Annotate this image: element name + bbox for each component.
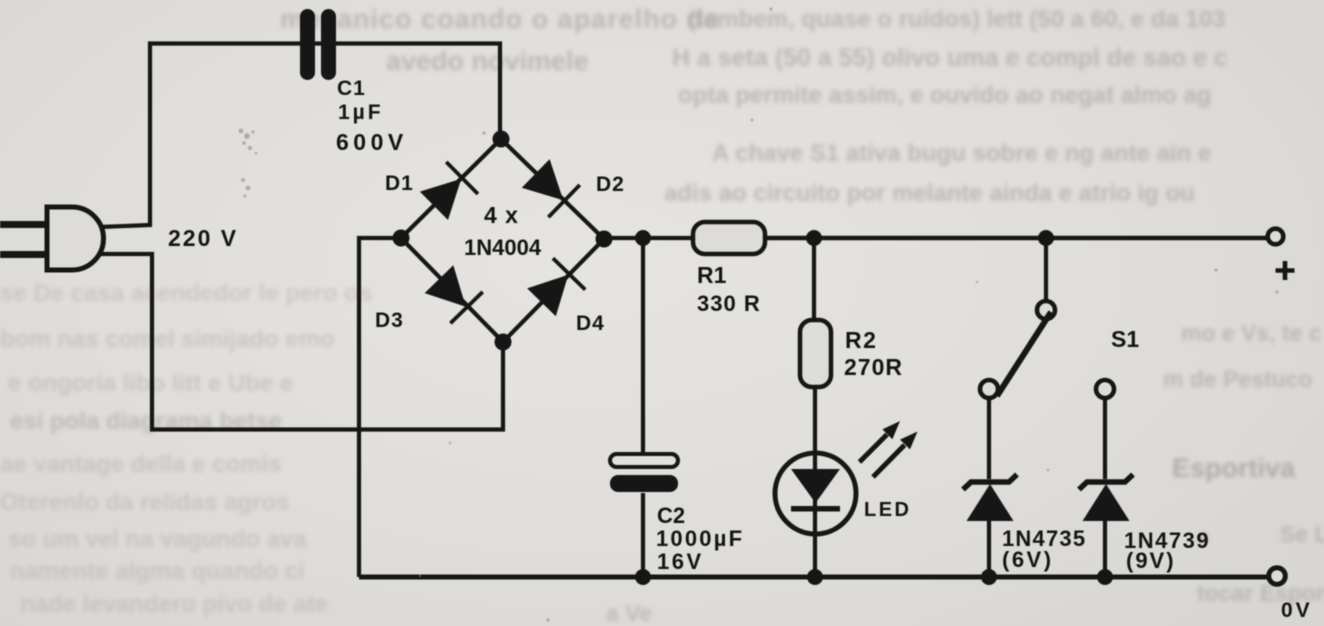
svg-text:1000µF: 1000µF: [656, 526, 744, 551]
svg-text:C2: C2: [657, 503, 685, 528]
svg-text:LED: LED: [864, 499, 912, 521]
svg-text:S1: S1: [1111, 326, 1139, 352]
svg-text:270R: 270R: [844, 354, 903, 380]
svg-text:D2: D2: [596, 173, 625, 196]
svg-text:220 V: 220 V: [168, 225, 238, 251]
svg-text:C1: C1: [337, 77, 366, 100]
svg-text:4 x: 4 x: [484, 202, 519, 228]
svg-text:330 R: 330 R: [697, 291, 761, 316]
svg-text:D1: D1: [385, 172, 414, 195]
svg-text:0V: 0V: [1281, 599, 1313, 622]
svg-text:D4: D4: [576, 312, 605, 335]
svg-text:(9V): (9V): [1126, 548, 1176, 573]
svg-text:16V: 16V: [657, 549, 704, 574]
svg-text:D3: D3: [375, 309, 404, 332]
svg-text:1µF: 1µF: [338, 101, 384, 124]
svg-text:R1: R1: [697, 262, 727, 288]
svg-text:1N4004: 1N4004: [464, 235, 542, 260]
svg-text:R2: R2: [845, 327, 877, 353]
svg-text:600V: 600V: [336, 129, 408, 155]
svg-text:(6V): (6V): [1002, 547, 1054, 572]
